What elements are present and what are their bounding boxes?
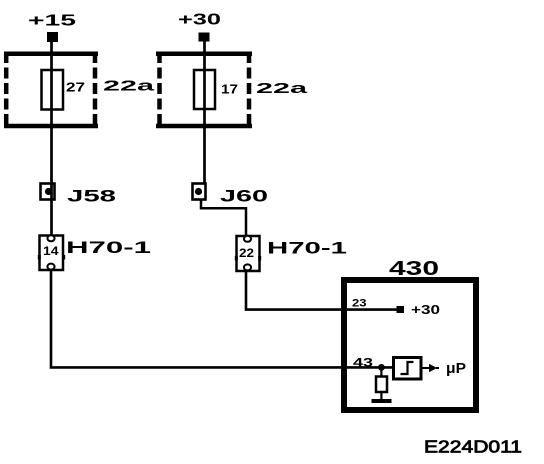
svg-text:H70-1: H70-1 [66,239,151,257]
svg-text:E224D011: E224D011 [424,437,522,457]
svg-text:17: 17 [221,83,238,97]
svg-text:22: 22 [239,246,254,260]
svg-text:μP: μP [446,361,466,377]
svg-text:27: 27 [66,81,85,95]
svg-text:22a: 22a [256,80,308,97]
svg-text:J60: J60 [220,188,268,206]
svg-text:+15: +15 [28,13,76,30]
svg-text:H70-1: H70-1 [267,240,347,258]
svg-text:22a: 22a [103,78,155,95]
svg-text:J58: J58 [67,188,116,206]
svg-text:23: 23 [352,298,367,310]
svg-text:430: 430 [389,257,439,280]
svg-text:+30: +30 [411,303,440,317]
svg-text:14: 14 [43,244,59,258]
svg-text:43: 43 [353,358,373,370]
svg-text:+30: +30 [178,12,221,29]
